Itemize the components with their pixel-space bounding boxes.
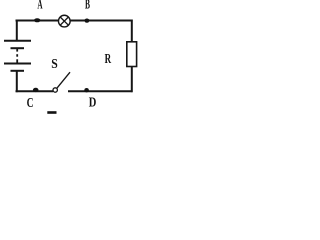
battery inter-cell dashed link [16, 49, 18, 52]
wire left side top (to battery) [16, 20, 18, 41]
node B junction dot [84, 19, 89, 23]
svg-text:C: C [27, 96, 34, 111]
wire bottom-left segment [16, 90, 54, 92]
node A junction dot [34, 18, 41, 22]
svg-text:S: S [51, 57, 58, 72]
wire top-left segment [16, 20, 59, 22]
node C junction dot [33, 88, 39, 92]
lamp L (circle with X) [58, 15, 70, 27]
wire left side bottom [16, 71, 18, 93]
wire top-right segment [70, 20, 132, 22]
battery cell1 long plate [4, 40, 31, 42]
wire bottom-right segment [68, 90, 133, 92]
svg-text:D: D [89, 95, 97, 110]
svg-text:B: B [85, 0, 90, 12]
battery cell2 long plate [4, 63, 31, 65]
svg-text:R: R [105, 52, 112, 67]
battery cell1 short plate [11, 47, 25, 49]
stray mark (bottom bar) [47, 111, 56, 114]
node D junction dot [84, 88, 89, 92]
switch S blade (open) [57, 72, 70, 88]
wire right side top [131, 20, 133, 42]
battery cell2 short plate [11, 70, 25, 72]
resistor R body [127, 42, 137, 67]
svg-text:A: A [37, 0, 43, 12]
wire right side bottom [131, 67, 133, 93]
switch S pivot circle [53, 88, 57, 92]
